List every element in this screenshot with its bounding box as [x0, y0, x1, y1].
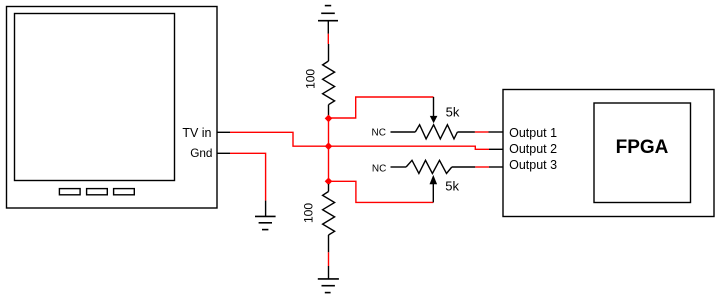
TV body — [7, 7, 218, 209]
lower pot right lead — [452, 166, 476, 168]
upper pot R2 (5k) zigzag — [415, 125, 457, 139]
red bus vertical dot1-dot3 — [328, 118, 330, 181]
supply rail symbol (top, inverted ground) — [318, 6, 338, 21]
pin TV in — [217, 131, 230, 133]
wire output2 black to FPGA — [489, 148, 503, 150]
resistor R1 (100) zigzag — [323, 61, 335, 105]
resistor R4 bottom lead — [328, 235, 330, 252]
pin Gnd — [217, 152, 230, 154]
svg-text:NC: NC — [372, 128, 386, 139]
wire output1 black to FPGA — [489, 131, 504, 133]
svg-text:5k: 5k — [446, 104, 460, 119]
wire supply to R1 — [327, 34, 329, 44]
junction dot1 — [325, 115, 333, 123]
resistor R4 (100) zigzag — [323, 192, 335, 236]
junction dot3 — [325, 178, 333, 186]
wire dot1 to upper pot wiper — [329, 97, 434, 118]
ground (TV) — [255, 216, 276, 229]
resistor R1 bottom lead — [328, 105, 330, 116]
junction dot2 — [325, 142, 333, 150]
svg-text:5k: 5k — [445, 178, 459, 193]
resistor R4 top lead — [328, 184, 330, 192]
svg-text:NC: NC — [372, 164, 386, 175]
FPGA inner box — [594, 103, 691, 203]
svg-text:100: 100 — [301, 203, 315, 223]
ground lead (bottom) — [328, 266, 330, 279]
supply stem — [327, 21, 329, 34]
svg-text:TV in: TV in — [182, 126, 211, 140]
wire output3 red segment — [475, 166, 489, 168]
svg-text:Output 1: Output 1 — [509, 126, 557, 140]
lower pot left lead — [391, 166, 407, 168]
wire TV in net — [230, 132, 329, 146]
svg-text:FPGA: FPGA — [616, 137, 669, 158]
TV screen — [15, 14, 175, 181]
upper pot left lead — [391, 131, 416, 133]
wire output2 red — [329, 146, 490, 149]
svg-text:Gnd: Gnd — [190, 146, 212, 160]
wire dot3 to lower pot wiper — [329, 181, 434, 202]
FPGA outer box — [503, 90, 714, 217]
TV button 1 — [59, 189, 80, 195]
wire R4 to ground — [328, 252, 330, 266]
wire Gnd net — [230, 153, 266, 200]
lower pot wiper arrow — [430, 175, 438, 184]
upper pot wiper arrow — [430, 116, 438, 123]
lower pot wiper stem — [432, 184, 434, 202]
wire output3 black to FPGA — [489, 166, 503, 168]
upper pot wiper stem — [433, 97, 435, 116]
wire output1 red segment — [475, 131, 489, 133]
TV button 2 — [87, 189, 108, 195]
lower pot R3 (5k) zigzag — [406, 160, 452, 173]
svg-text:Output 3: Output 3 — [509, 158, 557, 172]
resistor R1 top lead — [328, 44, 330, 61]
upper pot right lead — [457, 131, 475, 133]
svg-text:100: 100 — [303, 69, 317, 89]
ground lead (TV) — [265, 201, 267, 217]
TV button 3 — [114, 189, 135, 195]
svg-text:Output 2: Output 2 — [509, 142, 557, 156]
ground (bottom) — [318, 279, 339, 293]
